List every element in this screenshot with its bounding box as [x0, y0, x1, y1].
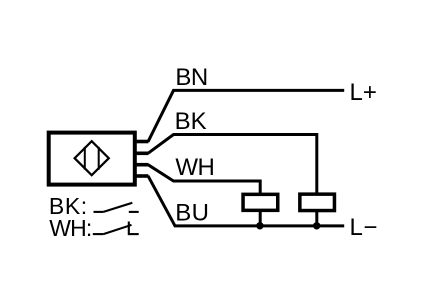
diamond core line left [84, 147, 86, 170]
load R2 bottom lead [315, 211, 318, 226]
load R2 (right) [300, 194, 335, 210]
pin stub 3 (WH) [135, 163, 148, 167]
svg-text:BK: BK [175, 108, 207, 135]
wire BK to load R2 [148, 135, 317, 195]
WH NC contact arm [103, 225, 131, 234]
wire BU to L- [148, 176, 344, 226]
svg-text:L+: L+ [350, 79, 377, 106]
wire BN to L+ [148, 90, 344, 141]
WH NC contact left lead [93, 233, 104, 235]
load R1 bottom lead [259, 211, 262, 226]
svg-text:WH:: WH: [49, 215, 91, 241]
load R1 (left) [243, 194, 278, 210]
svg-text:L−: L− [350, 214, 378, 241]
BK NO contact right lead [129, 211, 139, 213]
junction node left [256, 222, 263, 229]
WH NC contact stop bar [128, 222, 130, 236]
svg-text:BU: BU [175, 199, 209, 226]
pin stub 4 (BU) [135, 174, 148, 178]
BK NO contact arm [103, 203, 132, 212]
junction node right [313, 222, 320, 229]
sensor U1 (proximity switch body) [49, 133, 135, 185]
inductive sensor symbol (diamond) [75, 141, 109, 175]
diamond core line right [98, 147, 100, 170]
BK NO contact left lead [94, 211, 104, 213]
WH NC contact right lead [129, 233, 139, 235]
svg-text:BN: BN [175, 64, 207, 91]
wire WH to load R1 [148, 165, 260, 194]
pin stub 1 (BN) [135, 140, 148, 144]
pin stub 2 (BK) [135, 152, 148, 156]
svg-text:WH: WH [175, 154, 214, 181]
